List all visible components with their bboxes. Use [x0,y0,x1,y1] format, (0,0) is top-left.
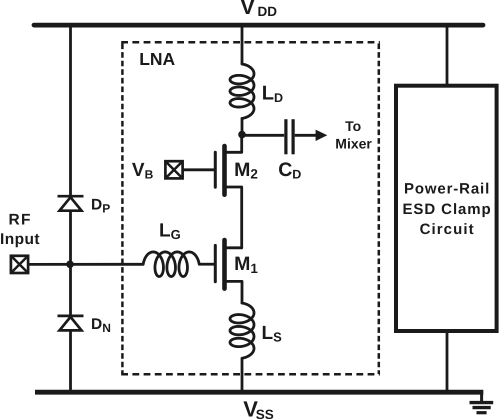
svg-text:V: V [240,0,255,19]
svg-text:Mixer: Mixer [335,136,372,152]
svg-text:DD: DD [258,4,278,19]
svg-text:ESD Clamp: ESD Clamp [403,201,491,218]
svg-text:SS: SS [256,407,274,419]
svg-text:Circuit: Circuit [420,221,474,238]
svg-text:Power-Rail: Power-Rail [404,181,489,198]
svg-text:LNA: LNA [139,49,175,69]
svg-text:Input: Input [0,231,40,248]
svg-text:To: To [345,118,361,134]
svg-text:RF: RF [9,212,31,229]
